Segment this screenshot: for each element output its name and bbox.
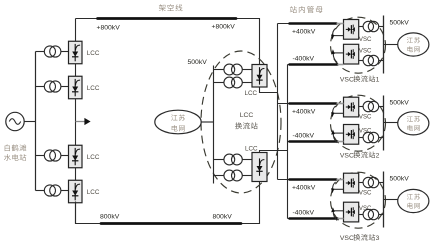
svg-text:500kV: 500kV	[390, 99, 410, 106]
wire transformer 3a to 500kV bus	[379, 182, 384, 184]
wire AC bus to transformer Thigha	[214, 69, 225, 71]
svg-text:800kV: 800kV	[213, 214, 233, 221]
svg-text:VSC: VSC	[340, 77, 354, 84]
power-flow arrow (export direction)	[76, 121, 85, 123]
converter valve LCC2 (sending end)	[69, 76, 83, 99]
wire AC bus to transformer Thighb	[214, 82, 225, 84]
converter valve LCC4 (sending end)	[69, 180, 83, 203]
svg-text:LCC: LCC	[240, 112, 254, 119]
wire transformer 1b to 500kV bus	[379, 60, 384, 62]
500kV AC bus station 2	[383, 96, 385, 151]
gray lead into VSC 2a	[337, 103, 344, 105]
VSC valve 3a (upper)	[344, 173, 359, 193]
500kV AC bus station 3	[383, 172, 385, 228]
generator G1 (Baihetan hydro plant AC source)	[6, 112, 24, 130]
sending-end DC pole column wire	[75, 19, 77, 224]
svg-text:LCC: LCC	[245, 145, 258, 152]
svg-text:800kV: 800kV	[100, 214, 120, 221]
svg-text:VSC: VSC	[340, 235, 354, 242]
wire AC bus to transformer T2	[36, 86, 45, 88]
wire AC bus to transformer Tlowa	[214, 159, 225, 161]
receiving LCC valve (high, +800kV to +400kV)	[252, 65, 267, 88]
svg-text:VSC: VSC	[359, 114, 372, 121]
svg-text:VSC: VSC	[340, 153, 354, 160]
svg-text:-400kV: -400kV	[293, 55, 315, 62]
wire VSC 1b to transformer	[359, 60, 363, 62]
transformer T-LCC-low-b	[224, 170, 235, 181]
Jiangsu grid ellipse (station 2)	[398, 112, 429, 135]
wire -400kV feeder station 3 (thin)	[288, 218, 344, 220]
+400kV bus conductor station 2 (thick)	[290, 102, 337, 105]
svg-text:LCC: LCC	[87, 50, 100, 57]
wire 500kV bus to Jiangsu grid 2	[384, 122, 398, 124]
wire VSC 2b to transformer	[359, 137, 363, 139]
transformer T-VSC-2a	[363, 101, 373, 111]
VSC valve 2b (lower)	[344, 125, 359, 145]
wire VSC 1a to transformer	[359, 26, 363, 28]
wire LCC high valve to +400kV trunk	[260, 87, 278, 93]
converter valve LCC1 (sending end)	[69, 41, 83, 64]
label overhead line (jiakongxian)	[159, 4, 166, 11]
control arrow VSC 3a	[333, 188, 344, 190]
receiving LCC valve (low, -800kV side)	[252, 153, 267, 182]
svg-text:-400kV: -400kV	[293, 209, 315, 216]
svg-text:-400kV: -400kV	[293, 132, 315, 139]
transformer T4	[44, 185, 55, 196]
svg-text:LCC: LCC	[245, 90, 258, 97]
wire +400kV feeder station 2 (thin)	[278, 103, 344, 105]
wire AC bus to transformer T1	[36, 51, 45, 53]
wire transformer T4 to converter LCC4	[61, 190, 69, 192]
-400kV DC trunk	[287, 65, 289, 219]
wire transformer to LCC valve (low a)	[242, 159, 252, 161]
+400kV bus conductor station 3 (thick)	[290, 178, 337, 181]
wire AC bus to transformer Tlowb	[214, 175, 225, 177]
wire transformer to LCC valve (high a)	[242, 69, 252, 71]
label station bus (zhannei guanmu)	[290, 6, 297, 13]
wire AC bus to transformer T4	[36, 190, 45, 192]
wire transformer T3 to converter LCC3	[61, 155, 69, 157]
500kV AC bus station 1	[383, 16, 385, 74]
wire transformer to LCC valve (low b)	[242, 175, 252, 177]
Jiangsu grid ellipse (station 3)	[398, 189, 429, 212]
svg-text:500kV: 500kV	[390, 175, 410, 182]
gray lead into VSC 1a	[337, 23, 344, 25]
wire LCC low valve to -400kV trunk	[260, 151, 288, 153]
VSC station 2 boundary (dashed ellipse)	[331, 95, 386, 151]
LCC converter-station boundary (dashed ellipse)	[201, 51, 281, 193]
svg-text:+400kV: +400kV	[292, 184, 316, 191]
control arrow VSC 1a	[333, 35, 344, 37]
wire 500kV bus to Jiangsu grid 1	[384, 44, 398, 46]
VSC station 1 boundary (dashed ellipse)	[331, 17, 386, 73]
gray lead into VSC 2b	[338, 141, 344, 143]
svg-text:LCC: LCC	[87, 154, 100, 161]
svg-text:+800kV: +800kV	[212, 23, 236, 30]
wire transformer 1a to 500kV bus	[379, 26, 384, 28]
wire transformer T2 to converter LCC2	[61, 86, 69, 88]
wire Jiangsu grid to AC bus	[201, 121, 213, 123]
svg-text:500kV: 500kV	[188, 59, 208, 66]
wire transformer 2a to 500kV bus	[379, 106, 384, 108]
svg-text:500kV: 500kV	[390, 19, 410, 26]
svg-text:+800kV: +800kV	[97, 24, 121, 31]
+400kV bus conductor station 1 (thick)	[290, 22, 337, 25]
VSC valve 3b (lower)	[344, 202, 359, 222]
transformer T3	[44, 150, 55, 161]
wire -400kV feeder station 1 (thin)	[288, 64, 344, 66]
transformer T-VSC-3b	[363, 209, 373, 219]
transformer T-VSC-1b	[363, 55, 373, 65]
svg-text:VSC: VSC	[359, 190, 372, 197]
VSC valve 1a (upper)	[344, 20, 359, 40]
control arrow VSC 2a	[333, 112, 344, 114]
wire transformer 3b to 500kV bus	[379, 214, 384, 216]
svg-text:LCC: LCC	[87, 189, 100, 196]
overhead line conductor (bottom, thick)	[101, 222, 241, 225]
gray lead into VSC 3a	[337, 179, 344, 181]
wire generator to AC bus	[24, 121, 35, 123]
control arrow VSC 3b	[333, 210, 344, 212]
overhead line conductor (top, thick)	[98, 17, 237, 20]
VSC valve 1b (lower)	[344, 44, 359, 64]
VSC station 3 boundary (dashed ellipse)	[331, 172, 386, 228]
wire transformer 2b to 500kV bus	[379, 137, 384, 139]
wire transformer to LCC valve (high b)	[242, 82, 252, 84]
wire VSC 3b to transformer	[359, 214, 363, 216]
wire +400kV feeder station 1 (thin)	[278, 23, 344, 25]
svg-text:LCC: LCC	[87, 85, 100, 92]
wire transformer T1 to converter LCC1	[61, 51, 69, 53]
svg-text:+400kV: +400kV	[292, 28, 316, 35]
transformer T1	[44, 46, 55, 57]
sending-end AC bus	[35, 52, 37, 191]
receiving-end 500kV AC bus	[213, 66, 215, 184]
Jiangsu grid ellipse (station 1)	[398, 33, 429, 56]
wire +800kV pole line (thin route)	[76, 19, 260, 65]
VSC valve 2a (upper)	[344, 97, 359, 117]
wire 800kV return line (thin route)	[76, 182, 260, 224]
transformer T2	[44, 81, 55, 92]
transformer T-VSC-2b	[363, 132, 373, 142]
-400kV bus conductor station 1 (thick)	[290, 63, 338, 66]
svg-text:VSC: VSC	[359, 36, 372, 43]
gray lead into VSC 3b	[338, 218, 344, 220]
svg-text:+400kV: +400kV	[292, 108, 316, 115]
transformer T-LCC-high-b	[224, 77, 235, 88]
transformer T-VSC-1a	[363, 21, 373, 31]
converter valve LCC3 (sending end)	[69, 145, 83, 168]
control arrow VSC 2b	[333, 132, 344, 134]
transformer T-LCC-low-a	[224, 154, 235, 165]
-400kV bus conductor station 3 (thick)	[290, 217, 338, 220]
label Baihetan hydropower station	[5, 144, 10, 151]
+400kV DC trunk	[277, 24, 279, 180]
wire VSC 3a to transformer	[359, 182, 363, 184]
control arrow VSC 1b	[333, 52, 344, 54]
svg-text:VSC: VSC	[359, 47, 372, 54]
wire -400kV feeder station 2 (thin)	[288, 141, 344, 143]
wire +400kV feeder station 3 (thin)	[278, 179, 344, 181]
svg-text:1: 1	[376, 77, 380, 84]
transformer T-LCC-high-a	[224, 64, 235, 75]
wire VSC 2a to transformer	[359, 106, 363, 108]
svg-text:2: 2	[376, 153, 380, 160]
-400kV bus conductor station 2 (thick)	[290, 140, 338, 143]
svg-text:3: 3	[376, 235, 380, 242]
gray lead into VSC 1b	[338, 64, 344, 66]
wire 500kV bus to Jiangsu grid 3	[384, 199, 398, 201]
wire AC bus to transformer T3	[36, 155, 45, 157]
transformer T-VSC-3a	[363, 177, 373, 187]
Jiangsu grid ellipse (LCC station)	[155, 110, 201, 134]
